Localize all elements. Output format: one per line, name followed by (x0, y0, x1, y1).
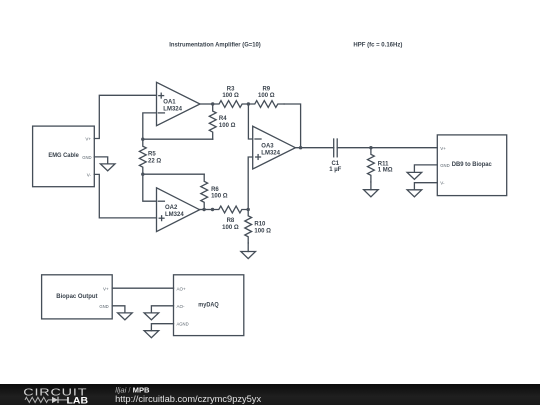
resistor R9 (248, 101, 284, 108)
svg-text:100 Ω: 100 Ω (211, 194, 228, 200)
wire OA3 output to C1 (295, 147, 333, 149)
wire node B to R6 (143, 173, 204, 175)
resistor R5 (139, 139, 146, 174)
svg-text:100 Ω: 100 Ω (222, 93, 239, 99)
capacitor C1 (333, 139, 335, 157)
node feedback A (141, 138, 144, 141)
svg-text:R11: R11 (378, 161, 389, 167)
svg-text:V+: V+ (85, 137, 91, 142)
node OA2 out / R8 (211, 208, 214, 211)
wire C1 to DB9 box (337, 147, 437, 149)
svg-text:R6: R6 (211, 187, 219, 193)
junction dots (141, 102, 372, 211)
resistor R8 (213, 206, 249, 213)
svg-text:http://circuitlab.com/czrymc9p: http://circuitlab.com/czrymc9pzy5yx (115, 394, 261, 404)
node R8 / R10 / OA3 + (247, 208, 250, 211)
node OA2 out / R6 (202, 208, 205, 211)
svg-text:EMG Cable: EMG Cable (48, 152, 79, 159)
wire OA2 - input (143, 174, 157, 201)
op-amp OA3 (253, 126, 296, 169)
svg-text:LM324: LM324 (261, 151, 280, 157)
wire myDAQ AO- to ground (151, 306, 173, 313)
svg-text:lljai / MPB: lljai / MPB (115, 385, 150, 394)
wire OA2 output (200, 209, 213, 211)
DB9 to Biopac box (437, 135, 506, 196)
svg-text:AGND: AGND (177, 322, 189, 327)
svg-text:1 µF: 1 µF (329, 167, 341, 173)
svg-text:100 Ω: 100 Ω (222, 225, 239, 231)
node feedback B (141, 173, 144, 176)
wire feedback horizontal (143, 138, 213, 140)
ground (R10) (241, 252, 256, 259)
svg-text:V+: V+ (103, 286, 109, 291)
svg-text:R4: R4 (219, 116, 227, 122)
svg-text:R5: R5 (148, 152, 156, 158)
wire R9 right to OA3 output (284, 104, 301, 148)
node OA3 out / R9 (299, 146, 302, 149)
wire R11 to ground (370, 182, 372, 190)
EMG Cable box (33, 126, 95, 187)
svg-text:myDAQ: myDAQ (198, 301, 218, 308)
ground (myDAQ AGND) (144, 331, 159, 338)
ground (DB9 GND) (407, 172, 422, 179)
svg-text:V-: V- (440, 181, 445, 186)
ground (myDAQ AO-) (144, 313, 159, 320)
wire myDAQ AGND to ground (151, 324, 173, 331)
svg-text:R9: R9 (262, 86, 270, 92)
node OA1 out / R3 / R4 (211, 102, 214, 105)
wire DB9 GND to ground (414, 165, 437, 173)
op-amp OA2 (157, 188, 200, 232)
wire OA3 - input from R3/R9 node (248, 104, 252, 139)
svg-text:100 Ω: 100 Ω (258, 93, 275, 99)
svg-text:R10: R10 (254, 221, 266, 227)
svg-text:LM324: LM324 (163, 107, 182, 113)
svg-text:LM324: LM324 (165, 212, 184, 218)
ground (Biopac GND) (118, 313, 133, 320)
svg-text:DB9 to Biopac: DB9 to Biopac (452, 161, 492, 168)
svg-text:AO-: AO- (177, 304, 186, 309)
logo diode (48, 399, 52, 401)
ground (DB9 V-) (407, 190, 422, 197)
wire R10 to ground (247, 243, 249, 252)
svg-text:GND: GND (82, 155, 91, 160)
ground (R11) (364, 190, 379, 197)
wire EMG V+ to OA1 + input (94, 95, 156, 138)
svg-text:HPF (fc = 0.16Hz): HPF (fc = 0.16Hz) (353, 43, 402, 49)
svg-text:OA1: OA1 (163, 100, 176, 106)
wire DB9 V- to ground (414, 183, 437, 190)
svg-text:LAB: LAB (67, 395, 89, 405)
svg-text:Biopac Output: Biopac Output (56, 293, 98, 300)
resistor R4 (209, 104, 216, 139)
svg-text:Instrumentation Amplifier (G=1: Instrumentation Amplifier (G=10) (169, 43, 260, 49)
resistor R10 (245, 210, 252, 244)
wire OA1 - feedback (143, 113, 157, 139)
svg-text:C1: C1 (331, 161, 339, 167)
svg-text:1 MΩ: 1 MΩ (378, 168, 393, 174)
wire Biopac V+ to myDAQ AO+ (112, 287, 173, 289)
resistor R11 (368, 148, 375, 182)
node R3 / R9 / OA3 - (247, 102, 250, 105)
ground (EMG) (100, 164, 115, 171)
svg-text:OA2: OA2 (165, 205, 178, 211)
wire OA1 output (200, 103, 213, 105)
node C1 / R11 (369, 146, 372, 149)
op-amp OA1 (157, 82, 201, 125)
resistor R3 (213, 101, 249, 108)
svg-text:R3: R3 (227, 86, 235, 92)
svg-text:100 Ω: 100 Ω (254, 229, 271, 235)
svg-text:V-: V- (87, 172, 92, 177)
svg-text:V+: V+ (440, 146, 446, 151)
wire EMG V- to OA2 + input (94, 174, 156, 218)
resistor R6 (201, 174, 208, 209)
svg-text:GND: GND (440, 163, 449, 168)
svg-text:R8: R8 (227, 218, 235, 224)
wire EMG GND stub (94, 157, 107, 164)
svg-text:AO+: AO+ (177, 286, 187, 291)
Biopac Output box (42, 275, 113, 319)
svg-text:22 Ω: 22 Ω (148, 158, 161, 164)
wire OA3 + input from R8/R10 node (248, 157, 253, 210)
myDAQ box (174, 275, 244, 336)
svg-text:100 Ω: 100 Ω (219, 123, 236, 129)
wire Biopac GND to ground (112, 306, 125, 313)
svg-text:OA3: OA3 (261, 144, 274, 150)
svg-text:GND: GND (99, 304, 108, 309)
logo resistor zigzag (25, 397, 48, 402)
